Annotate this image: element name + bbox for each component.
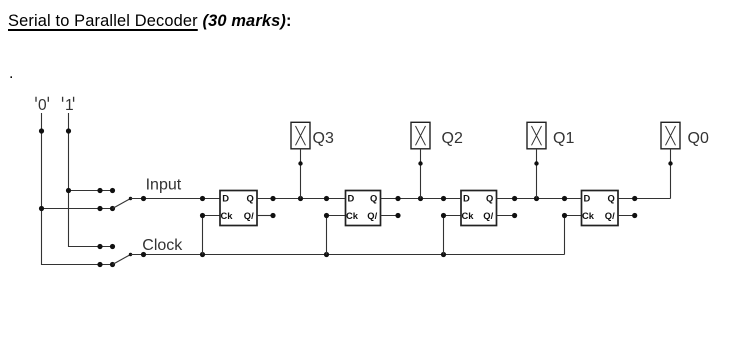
svg-text:Clock: Clock [142, 237, 183, 254]
junction U2 Ck [324, 213, 329, 218]
junction U1 Ck [200, 213, 205, 218]
node dot U3 Q [512, 196, 517, 201]
node dot U1 Q/ [270, 213, 275, 218]
node dot Q3 riser [298, 161, 302, 165]
wire U1 Q to U2 D [257, 198, 346, 200]
node '1' label [63, 97, 74, 114]
node dot clock net [141, 252, 146, 257]
svg-text:Q: Q [486, 193, 493, 204]
stray period [9, 66, 13, 82]
svg-text:Q3: Q3 [313, 130, 334, 147]
indicator X3 (output Q1) [527, 122, 546, 149]
switch SW1 lower contact dots [97, 206, 115, 211]
svg-text:Q/: Q/ [605, 210, 615, 221]
wire '0' rail [42, 113, 113, 265]
switch SW1 pivot dot [129, 197, 132, 200]
node dot U4 Q [632, 196, 637, 201]
svg-text:0: 0 [38, 97, 47, 114]
switch SW2 (Clock) upper contact dots [97, 244, 115, 249]
wire Q0 riser [670, 149, 672, 199]
wire U1 Ck riser [202, 216, 204, 255]
svg-text:Q/: Q/ [367, 210, 377, 221]
node '1' terminal dot [66, 128, 71, 133]
D flip-flop U1 [220, 191, 257, 226]
svg-text:Ck: Ck [221, 210, 234, 221]
node dot Q1 riser [534, 161, 538, 165]
wire U1 Ck stub [203, 215, 221, 217]
junction '0' rail / input branch [39, 206, 44, 211]
node dot U2 Q/ [395, 213, 400, 218]
node dot input net [141, 196, 146, 201]
title [8, 13, 292, 29]
junction clock rail / U2 Ck riser [324, 252, 329, 257]
wire U3 Ck stub [444, 215, 462, 217]
svg-text:D: D [463, 193, 470, 204]
node dot at U1 D pin [200, 196, 205, 201]
svg-text:Q: Q [370, 193, 377, 204]
junction clock rail / U1 Ck riser [200, 252, 205, 257]
indicator X2 (output Q2) [411, 122, 430, 149]
node dot at U3 D pin [441, 196, 446, 201]
node dot U3 Q/ [512, 213, 517, 218]
svg-text:Q/: Q/ [244, 210, 254, 221]
node '0' label [36, 97, 48, 114]
node dot Q2 riser [418, 161, 422, 165]
junction Q1 riser on Q net [534, 196, 539, 201]
junction Q3 riser on Q net [298, 196, 303, 201]
wire Q3 riser [300, 149, 302, 199]
svg-text:1: 1 [65, 97, 74, 114]
svg-text:Ck: Ck [346, 210, 359, 221]
wire U4 Ck stub [565, 215, 582, 217]
node '0' terminal dot [39, 128, 44, 133]
junction '1' rail / input branch [66, 188, 71, 193]
wire U3 Q to U4 D [497, 198, 582, 200]
wire U2 Ck riser [326, 216, 328, 255]
wire U2 Ck stub [327, 215, 346, 217]
wire clock rail [131, 254, 565, 256]
svg-text:D: D [348, 193, 355, 204]
wire U4 Q/ stub [618, 215, 635, 217]
node dot U4 Q/ [632, 213, 637, 218]
wire Q1 riser [536, 149, 538, 199]
wire U4 Ck riser [564, 216, 566, 255]
D flip-flop U4 [582, 191, 619, 226]
svg-text:Ck: Ck [582, 210, 595, 221]
wire '1' rail [69, 113, 113, 247]
svg-text:Input: Input [146, 177, 182, 194]
node dot Q0 riser [668, 161, 672, 165]
junction clock rail / U3 Ck riser [441, 252, 446, 257]
svg-text:Q0: Q0 [688, 130, 709, 147]
D flip-flop U3 [461, 191, 497, 226]
switch SW1 (Input) upper contact dots [97, 188, 115, 193]
svg-text:D: D [222, 193, 229, 204]
indicator X4 (output Q0) [661, 122, 680, 149]
wire U2 Q/ stub [381, 215, 399, 217]
wire U1 Q/ stub [257, 215, 273, 217]
wire '1' branch to input switch upper contact [69, 190, 113, 192]
svg-text:Q: Q [247, 193, 254, 204]
wire U2 Q to U3 D [381, 198, 462, 200]
switch SW2 blade [113, 255, 131, 265]
svg-text:Ck: Ck [462, 210, 475, 221]
node dot at U4 D pin [562, 196, 567, 201]
node dot at U2 D pin [324, 196, 329, 201]
switch SW1 blade [113, 199, 131, 209]
node dot U2 Q [395, 196, 400, 201]
switch SW2 lower contact dots [97, 262, 115, 267]
D flip-flop U2 [346, 191, 381, 226]
node dot U1 Q [270, 196, 275, 201]
svg-text:Q1: Q1 [553, 130, 574, 147]
junction Q2 riser on Q net [418, 196, 423, 201]
wire U3 Q/ stub [497, 215, 515, 217]
wire U4 Q to Q0 riser [618, 198, 671, 200]
wire input net to U1 D [131, 198, 221, 200]
svg-text:Q2: Q2 [442, 130, 463, 147]
wire '0' branch to input switch lower contact [42, 208, 113, 210]
wire Q2 riser [420, 149, 422, 199]
wire U3 Ck riser [443, 216, 445, 255]
indicator X1 (output Q3) [291, 122, 310, 149]
junction U4 Ck [562, 213, 567, 218]
switch SW2 pivot dot [129, 253, 132, 256]
svg-text:Q/: Q/ [483, 210, 493, 221]
svg-text:D: D [584, 193, 591, 204]
junction U3 Ck [441, 213, 446, 218]
svg-text:Q: Q [608, 193, 615, 204]
